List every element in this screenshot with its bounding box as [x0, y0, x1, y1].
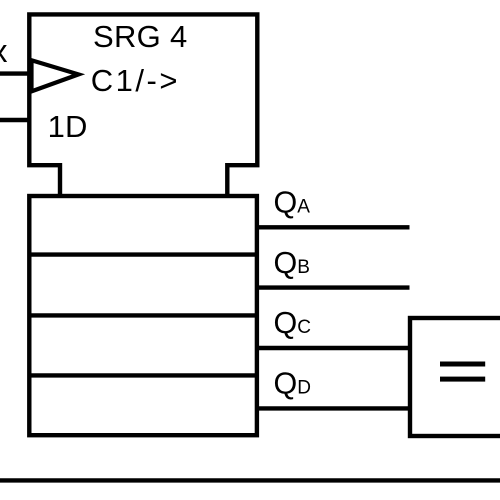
shift register U1 control block (SRG 4) [29, 14, 257, 197]
svg-text:SRG 4: SRG 4 [93, 19, 188, 54]
wire QD output [256, 406, 410, 410]
cell divider 2 (QB/QC) [29, 313, 257, 317]
equals sign bottom bar [440, 377, 485, 382]
svg-text:x: x [0, 33, 8, 69]
register 4-bit cell array outline [29, 196, 257, 435]
wire QC output [256, 346, 410, 350]
svg-text:1D: 1D [48, 109, 88, 144]
comparator block (cut off at right edge) [410, 318, 500, 436]
wire QA output [256, 225, 410, 229]
cell divider 3 (QC/QD) [29, 373, 257, 377]
wire clock input [0, 71, 31, 75]
svg-text:C1/->: C1/-> [91, 63, 180, 98]
equals sign top bar [440, 362, 485, 367]
cell divider 1 (QA/QB) [29, 252, 257, 256]
wire 1D input [0, 118, 31, 122]
wire QB output [256, 285, 410, 289]
clock dynamic-input triangle [32, 60, 79, 91]
bottom horizontal rule [0, 478, 500, 482]
